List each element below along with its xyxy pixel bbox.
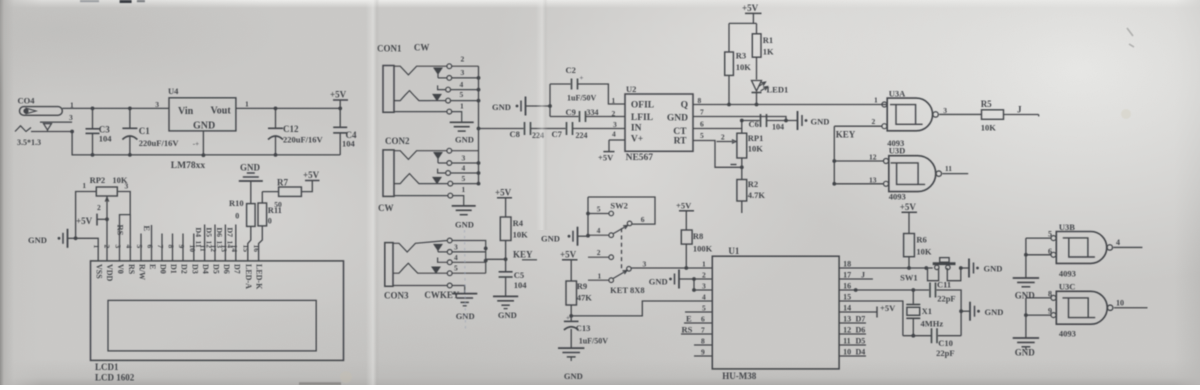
node E (686, 313, 692, 323)
potentiometer RP1 wiper (717, 133, 737, 165)
ground GND flag (SW1) (969, 259, 1002, 278)
+5V supply flag (900, 202, 917, 234)
LCD module LCD1 outline (91, 261, 344, 361)
pushbutton SW1 (900, 258, 963, 283)
U1 right pin 15 (839, 292, 903, 335)
U1 right pin 16 (839, 281, 929, 292)
+5V supply flag (560, 250, 578, 282)
+5V supply flag (742, 3, 762, 23)
CON3 ring contact pin5 (393, 263, 486, 275)
node RS (682, 324, 693, 334)
+5V supply flag (495, 188, 512, 218)
CON2 pin4 (438, 164, 481, 176)
wire V0 (106, 219, 108, 261)
+5V supply flag (303, 170, 320, 181)
paper stain (1121, 109, 1131, 119)
wire (961, 267, 969, 269)
U1 right pin 17 J (839, 270, 873, 279)
ground (U3B) (1013, 278, 1039, 301)
ground GND flag (SW2) (541, 227, 588, 246)
U1 right pin 11 D5 (839, 336, 866, 345)
CON3 pin4 (438, 253, 488, 265)
node KEY (gate) (832, 126, 855, 186)
U1 right pin 10 D4 (839, 347, 866, 356)
+5V supply flag (676, 201, 694, 231)
resistor R10 (229, 198, 255, 261)
LCD display window (108, 300, 316, 351)
CON1 NC contact pin3 (434, 68, 481, 80)
gate U3B 4093 (1048, 222, 1113, 279)
ground GND flag (filter) (492, 97, 552, 116)
capacitor C11 (930, 280, 963, 336)
capacitor C9 (550, 107, 625, 122)
capacitor C10 (903, 328, 961, 358)
jack switch contact (15, 122, 72, 131)
U1 right pin 12 D6 (839, 325, 866, 334)
wire pin11 out (942, 164, 968, 174)
ground (C13) (558, 348, 584, 381)
node E (LCD pin6) (142, 225, 152, 261)
pin number 7 (700, 108, 704, 117)
resistor R7 (262, 178, 312, 197)
gate U3C 4093 (1048, 282, 1113, 339)
U3C output (1114, 298, 1148, 307)
CON2 tip contact (394, 148, 479, 159)
CON1 tip contact (394, 55, 479, 75)
U1 left pin numbers (701, 259, 706, 356)
KET pin3 (627, 260, 689, 272)
SW2 pin5 (588, 205, 614, 216)
wire (729, 23, 757, 52)
CON2 sleeve pin1 (394, 185, 466, 205)
label KET 8X8 (610, 285, 645, 295)
capacitor C8 (510, 122, 566, 140)
wire (72, 132, 340, 155)
wire (571, 301, 712, 316)
wire RT pin5 (693, 141, 744, 170)
paper mark (80, 0, 145, 3)
U3B output (1113, 238, 1142, 247)
wire IN line (479, 128, 524, 130)
power jack CO4 (17, 96, 74, 148)
CON1 sleeve pin1 (394, 102, 464, 122)
node KEY (486, 250, 537, 262)
resistor R6 (904, 234, 932, 270)
wire (117, 192, 130, 261)
ground (C5) (493, 296, 518, 320)
capacitor C3 (86, 107, 113, 157)
ground (U3C) (1013, 338, 1039, 358)
wire (549, 84, 551, 117)
capacitor C1 (122, 107, 179, 157)
IC U2 NE567 (625, 84, 693, 163)
connector CON1 body (377, 43, 429, 113)
capacitor C7 (552, 120, 626, 140)
LCD pin name labels (95, 264, 264, 290)
wire (834, 96, 881, 127)
resistor R5 (981, 99, 1004, 133)
resistor R2 (737, 179, 766, 213)
U1 right pin 13 D7 (839, 314, 866, 323)
CON1 ring contact pin5 (394, 90, 480, 103)
LCD data pin stubs D4-D7 (194, 225, 236, 261)
potentiometer RP1 (737, 133, 763, 180)
wire GND pin7 (693, 117, 788, 123)
resistor R11 (258, 192, 282, 261)
connector CON3 body (384, 243, 460, 301)
ground GND flag (C6) (798, 111, 830, 130)
paper stain (340, 371, 352, 383)
resistor R1 (752, 34, 774, 80)
paper mark (1127, 28, 1134, 47)
connector CON2 body (378, 136, 410, 213)
U3C input wires (1024, 298, 1051, 338)
SW2 pin2 (588, 248, 614, 260)
bus wire (477, 66, 481, 183)
wire (236, 107, 340, 109)
node RS (LCD pin4) (116, 215, 131, 261)
LCD pin numbers 1-16 (92, 245, 261, 253)
CON3 NC contact pin3 (434, 243, 488, 255)
node J (1004, 105, 1039, 117)
pin number 5 (700, 131, 704, 140)
pin number 6 (700, 120, 704, 129)
CON3 tip contact (393, 238, 486, 273)
gate U3D 4093 (834, 146, 941, 202)
SW2 pin4 arm (588, 225, 628, 237)
CON1 pin4 (438, 80, 481, 92)
U1 right pin 18 (839, 259, 933, 268)
resistor R4 (500, 217, 528, 259)
+5V supply flag (pin4) (598, 130, 625, 163)
wire CT pin6 (693, 121, 742, 134)
ground GND (above R10) (239, 163, 263, 204)
ground (CON2) (452, 206, 476, 230)
paper crease (465, 230, 466, 330)
LED LED1 (752, 81, 789, 107)
ground GND flag (28, 229, 78, 248)
wire Q output (693, 104, 887, 106)
CON2 NC contact pin3 (434, 152, 481, 165)
capacitor C12 (268, 107, 324, 157)
capacitor C13 (564, 314, 608, 348)
crystal X1 (906, 290, 943, 336)
ground GND flag (U1 pins2-3) (649, 270, 713, 292)
switch linkage (dashed) (621, 228, 623, 271)
U1 right pin 14 +5V (839, 303, 896, 318)
resistor R3 (725, 51, 752, 107)
paper mark (299, 382, 341, 385)
gate U3A 4093 (882, 89, 938, 149)
wire (76, 192, 97, 239)
wire (76, 238, 99, 261)
U3B input wires (1024, 238, 1051, 277)
potentiometer RP2 (82, 175, 128, 219)
regulator U4 LM78xx (155, 86, 249, 171)
resistor R8 (681, 230, 712, 268)
ground (CON1) (450, 122, 474, 144)
SW2 pin6 (627, 215, 644, 226)
U1 left pin stubs (681, 268, 712, 356)
wire (62, 108, 169, 133)
switch KET pin1 arm (588, 270, 627, 282)
ground (CON3) (452, 294, 477, 321)
capacitor C5 (499, 259, 528, 296)
+5V supply flag (76, 214, 109, 226)
capacitor C4 (333, 107, 357, 155)
wire pin3 out (939, 106, 981, 115)
ground GND flag (XTAL) (961, 302, 1003, 321)
+5V supply flag (330, 90, 348, 109)
IC U1 HU-M38 (712, 246, 839, 381)
LCD pin stubs (141, 234, 194, 261)
capacitor C6 (740, 114, 797, 132)
LCD1 labels (95, 362, 135, 383)
switch SW2 frame (586, 197, 655, 238)
pin number 8 (698, 96, 702, 105)
CON3 sleeve (393, 283, 465, 293)
CON2 ring contact pin5 (394, 174, 480, 186)
capacitor C2 (550, 65, 625, 105)
resistor R9 (566, 281, 592, 318)
